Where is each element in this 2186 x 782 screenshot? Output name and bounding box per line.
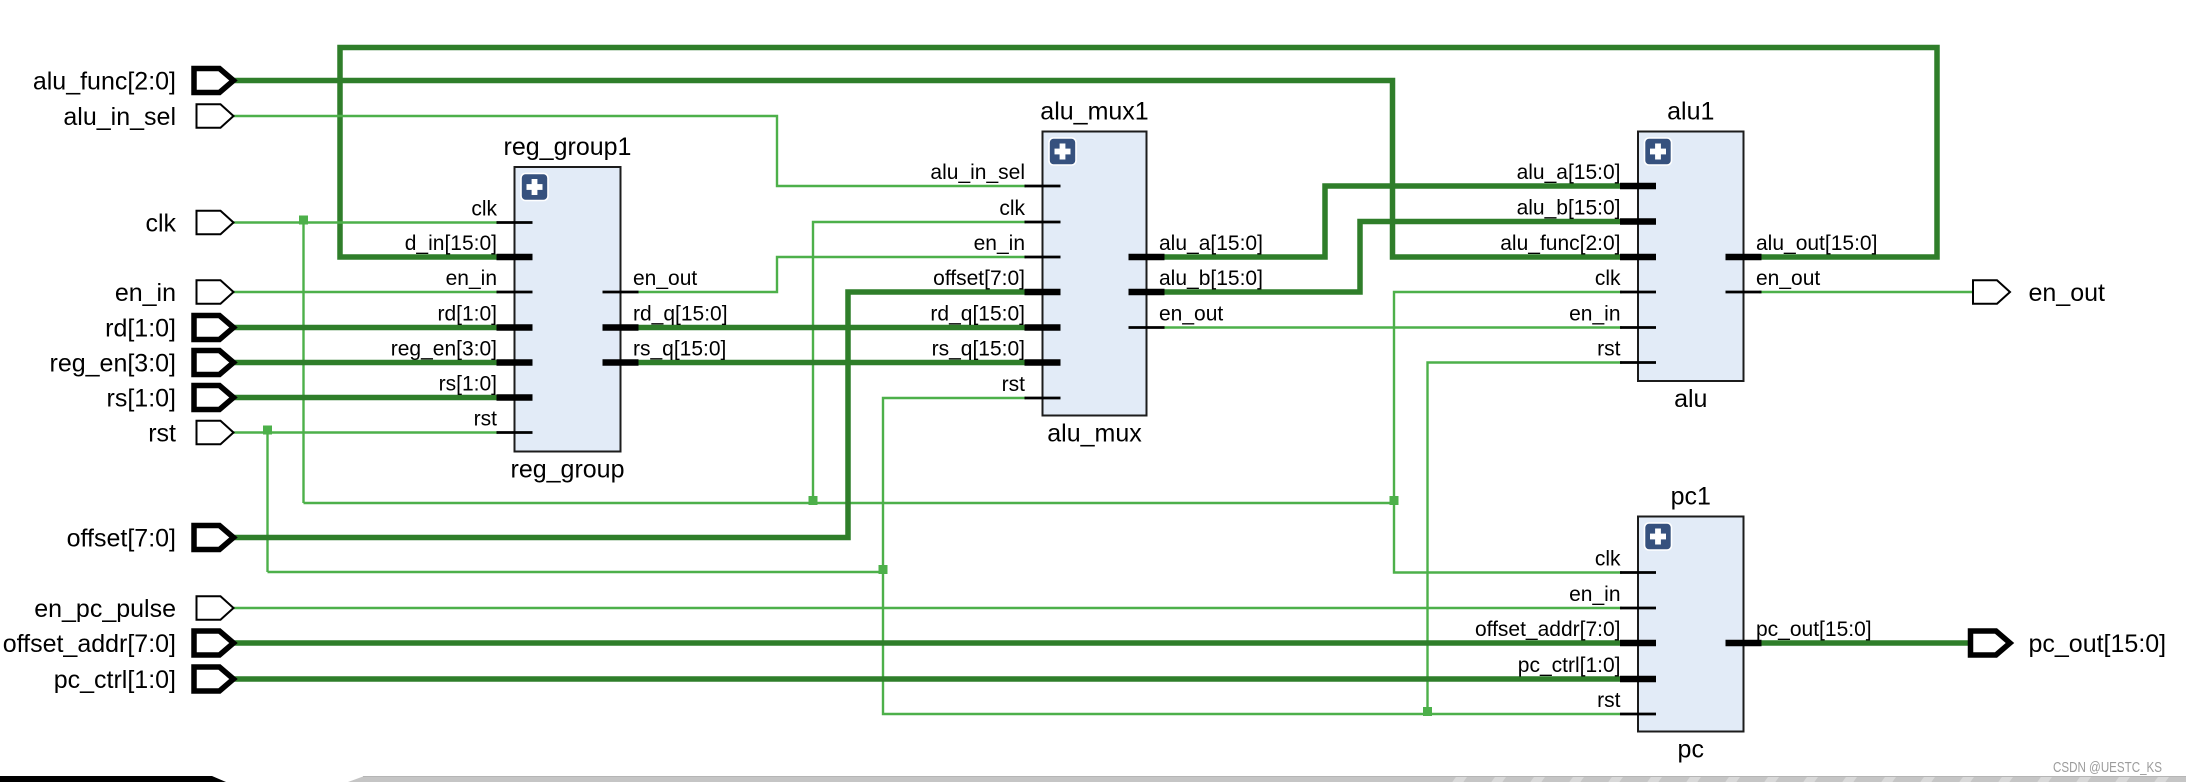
block alu_mux1 (alu_mux): [1040, 98, 1148, 416]
svg-text:rst: rst: [1597, 338, 1620, 361]
wire reg_en[3:0] (port to reg_group.reg_en): [233, 360, 498, 366]
wire clk (horizontal distribution): [304, 502, 1395, 504]
wire rst (horizontal distribution): [268, 571, 884, 573]
input port rst: [148, 420, 233, 448]
svg-text:reg_group: reg_group: [511, 456, 625, 484]
svg-text:pc_out[15:0]: pc_out[15:0]: [1756, 618, 1872, 641]
wire alu_b[15:0] (alu_mux.alu_b to alu1.alu_b): [1164, 222, 1622, 293]
pin alu_a[15:0] of alu1: [1517, 161, 1656, 186]
svg-text:offset[7:0]: offset[7:0]: [933, 267, 1025, 290]
expand (+) badge of reg_group1: [521, 174, 548, 201]
pin alu_b[15:0] of alu1: [1517, 197, 1656, 222]
pin clk of pc1: [1595, 548, 1656, 573]
wire rst (riser to alu_mux.rst): [883, 398, 1026, 572]
svg-text:reg_en[3:0]: reg_en[3:0]: [391, 338, 497, 361]
svg-text:alu_a[15:0]: alu_a[15:0]: [1159, 232, 1263, 255]
svg-text:en_in: en_in: [115, 279, 176, 307]
input port rs[1:0]: [107, 385, 234, 413]
wire rst (port to reg_group.rst): [233, 431, 498, 433]
wire clk (riser to alu1.clk): [1394, 292, 1622, 503]
pin en_in of pc1: [1569, 583, 1656, 608]
svg-text:en_in: en_in: [446, 267, 497, 290]
svg-text:alu_out[15:0]: alu_out[15:0]: [1756, 232, 1877, 255]
junction clk at port run: [299, 216, 308, 225]
svg-text:clk: clk: [145, 210, 176, 238]
svg-text:clk: clk: [1595, 548, 1621, 571]
bottom gray scrollbar track: [348, 772, 2186, 782]
pin alu_a[15:0] of alu_mux1: [1129, 232, 1263, 257]
svg-text:pc_ctrl[1:0]: pc_ctrl[1:0]: [1518, 654, 1621, 677]
pin alu_func[2:0] of alu1: [1500, 232, 1656, 257]
wire en_pc_pulse (port to pc.en_in): [233, 607, 1622, 609]
svg-text:alu_mux1: alu_mux1: [1040, 98, 1148, 126]
pin en_out of reg_group1: [603, 267, 698, 292]
pin rd_q[15:0] of reg_group1: [603, 303, 728, 328]
svg-text:en_out: en_out: [1159, 303, 1223, 326]
input port rd[1:0]: [105, 315, 233, 343]
svg-text:alu1: alu1: [1667, 98, 1714, 126]
input port pc_ctrl[1:0]: [54, 666, 234, 694]
svg-text:clk: clk: [999, 197, 1025, 220]
wire rd_q[15:0] (reg_group.rd_q to alu_mux.rd_q): [638, 325, 1026, 331]
svg-text:en_pc_pulse: en_pc_pulse: [34, 595, 176, 623]
svg-text:reg_group1: reg_group1: [504, 133, 632, 161]
pin rd_q[15:0] of alu_mux1: [930, 303, 1060, 328]
svg-text:alu_in_sel: alu_in_sel: [930, 161, 1025, 184]
svg-text:rd[1:0]: rd[1:0]: [105, 315, 176, 343]
svg-text:clk: clk: [1595, 267, 1621, 290]
expand (+) badge of alu1: [1645, 138, 1672, 165]
wire clk (port to reg_group.clk): [233, 221, 498, 223]
wire rst (drop to pc.rst): [883, 572, 1620, 714]
pin pc_ctrl[1:0] of pc1: [1518, 654, 1656, 679]
wire alu_in_sel (port to alu_mux.alu_in_sel): [233, 116, 1026, 186]
svg-text:pc_ctrl[1:0]: pc_ctrl[1:0]: [54, 666, 176, 694]
input port offset_addr[7:0]: [3, 630, 234, 658]
wire rs_q[15:0] (reg_group.rs_q to alu_mux.rs_q): [638, 360, 1026, 366]
junction rst bottom run at alu1 riser: [1423, 707, 1432, 716]
pin alu_b[15:0] of alu_mux1: [1129, 267, 1263, 292]
svg-text:rst: rst: [1002, 373, 1025, 396]
pin rs_q[15:0] of alu_mux1: [932, 338, 1061, 363]
pin d_in[15:0] of reg_group1: [405, 232, 533, 257]
pin clk of alu1: [1595, 267, 1656, 292]
svg-text:rs_q[15:0]: rs_q[15:0]: [633, 338, 726, 361]
wire rst (drop from port run): [266, 433, 268, 573]
input port alu_func[2:0]: [33, 68, 234, 96]
pin offset_addr[7:0] of pc1: [1475, 618, 1656, 643]
pin rs[1:0] of reg_group1: [439, 373, 533, 398]
wire en_out_mux (alu_mux.en_out to alu1.en_in): [1164, 326, 1622, 328]
watermark CSDN @UESTC_KS: [2053, 759, 2162, 776]
svg-text:clk: clk: [471, 198, 497, 221]
block reg_group1 (reg_group): [504, 133, 632, 452]
bottom-left black scrollbar segment: [0, 776, 226, 782]
wire offset_addr[7:0] (port to pc.offset_addr): [233, 640, 1622, 646]
svg-text:rst: rst: [148, 420, 176, 448]
pin alu_in_sel of alu_mux1: [930, 161, 1060, 186]
svg-text:d_in[15:0]: d_in[15:0]: [405, 232, 497, 255]
pin reg_en[3:0] of reg_group1: [391, 338, 533, 363]
expand (+) badge of alu_mux1: [1049, 138, 1076, 165]
wire pc_out[15:0] (pc.pc_out to pc_out port): [1759, 640, 1971, 646]
expand (+) badge of pc1: [1645, 523, 1672, 550]
pin alu_out[15:0] of alu1: [1726, 232, 1878, 257]
svg-text:alu_func[2:0]: alu_func[2:0]: [33, 68, 176, 96]
svg-text:rs[1:0]: rs[1:0]: [107, 385, 176, 413]
junction clk distribution at alu_mux riser: [809, 496, 818, 505]
output port pc_out[15:0]: [1971, 630, 2167, 658]
pin en_in of reg_group1: [446, 267, 533, 292]
svg-text:offset_addr[7:0]: offset_addr[7:0]: [1475, 618, 1621, 641]
block pc1 (pc): [1638, 483, 1744, 732]
pin en_in of alu_mux1: [974, 232, 1061, 257]
wire alu_a[15:0] (alu_mux.alu_a to alu1.alu_a): [1164, 186, 1622, 257]
svg-text:CSDN @UESTC_KS: CSDN @UESTC_KS: [2053, 759, 2162, 776]
pin en_in of alu1: [1569, 303, 1656, 328]
block alu1 (alu): [1638, 98, 1744, 382]
svg-text:offset[7:0]: offset[7:0]: [67, 525, 176, 553]
pin clk of reg_group1: [471, 198, 532, 223]
pin rst of pc1: [1597, 689, 1656, 714]
wire en_out_reg (reg_group.en_out to alu_mux.en_in): [638, 257, 1026, 292]
svg-text:en_in: en_in: [974, 232, 1025, 255]
svg-text:rs_q[15:0]: rs_q[15:0]: [932, 338, 1025, 361]
svg-text:alu_b[15:0]: alu_b[15:0]: [1517, 197, 1621, 220]
svg-text:rst: rst: [1597, 689, 1620, 712]
wire clk (riser to alu_mux.clk): [813, 222, 1026, 503]
pin rst of alu1: [1597, 338, 1656, 363]
svg-text:rd_q[15:0]: rd_q[15:0]: [633, 303, 728, 326]
svg-text:rst: rst: [474, 408, 497, 431]
wire rd[1:0] (port to reg_group.rd): [233, 325, 498, 331]
svg-text:alu: alu: [1674, 385, 1707, 413]
svg-text:offset_addr[7:0]: offset_addr[7:0]: [3, 630, 176, 658]
input port en_pc_pulse: [34, 595, 233, 623]
instance type label pc: [1678, 736, 1704, 764]
svg-text:en_in: en_in: [1569, 303, 1620, 326]
instance type label alu_mux: [1047, 420, 1142, 448]
wire alu_out[15:0] (alu1.alu_out to reg_group.d_in loop): [340, 48, 1937, 258]
junction clk distribution at alu1/pc riser: [1390, 496, 1399, 505]
svg-text:pc: pc: [1678, 736, 1704, 764]
svg-text:en_out: en_out: [633, 267, 697, 290]
svg-text:alu_a[15:0]: alu_a[15:0]: [1517, 161, 1621, 184]
wire offset[7:0] (port to alu_mux.offset): [233, 292, 1026, 538]
wire pc_ctrl[1:0] (port to pc.pc_ctrl): [233, 676, 1622, 682]
wire clk (drop from port run): [302, 223, 304, 504]
output port en_out: [1973, 279, 2105, 307]
instance type label alu: [1674, 385, 1707, 413]
wire clk (drop to pc.clk): [1394, 503, 1622, 573]
wire rs[1:0] (port to reg_group.rs): [233, 395, 498, 401]
svg-text:rd_q[15:0]: rd_q[15:0]: [930, 303, 1025, 326]
wire en_in (port to reg_group.en_in): [233, 291, 498, 293]
input port alu_in_sel: [63, 103, 233, 131]
instance type label reg_group: [511, 456, 625, 484]
junction rst at port run: [263, 426, 272, 435]
svg-text:en_in: en_in: [1569, 583, 1620, 606]
svg-text:alu_b[15:0]: alu_b[15:0]: [1159, 267, 1263, 290]
pin rs_q[15:0] of reg_group1: [603, 338, 727, 363]
svg-text:rd[1:0]: rd[1:0]: [437, 303, 497, 326]
input port en_in: [115, 279, 234, 307]
input port offset[7:0]: [67, 525, 234, 553]
svg-text:pc_out[15:0]: pc_out[15:0]: [2029, 630, 2167, 658]
svg-text:reg_en[3:0]: reg_en[3:0]: [50, 350, 177, 378]
pin pc_out[15:0] of pc1: [1726, 618, 1872, 643]
pin clk of alu_mux1: [999, 197, 1060, 222]
input port clk: [145, 210, 233, 238]
wire rst (riser to alu1.rst): [1428, 363, 1623, 715]
wire en_out (alu1.en_out to en_out port): [1759, 291, 1973, 293]
pin rst of reg_group1: [474, 408, 533, 433]
svg-text:rs[1:0]: rs[1:0]: [439, 373, 497, 396]
svg-text:alu_func[2:0]: alu_func[2:0]: [1500, 232, 1620, 255]
svg-text:en_out: en_out: [1756, 267, 1820, 290]
input port reg_en[3:0]: [50, 350, 234, 378]
pin offset[7:0] of alu_mux1: [933, 267, 1060, 292]
wire alu_func[2:0] (port to alu1.alu_func): [233, 81, 1622, 258]
svg-text:alu_in_sel: alu_in_sel: [63, 103, 176, 131]
svg-text:pc1: pc1: [1671, 483, 1711, 511]
svg-text:alu_mux: alu_mux: [1047, 420, 1142, 448]
pin rd[1:0] of reg_group1: [437, 303, 532, 328]
pin rst of alu_mux1: [1002, 373, 1061, 398]
pin en_out of alu_mux1: [1129, 303, 1224, 328]
pin en_out of alu1: [1726, 267, 1821, 292]
junction rst distribution at alu_mux riser: [879, 565, 888, 574]
svg-text:en_out: en_out: [2029, 279, 2106, 307]
